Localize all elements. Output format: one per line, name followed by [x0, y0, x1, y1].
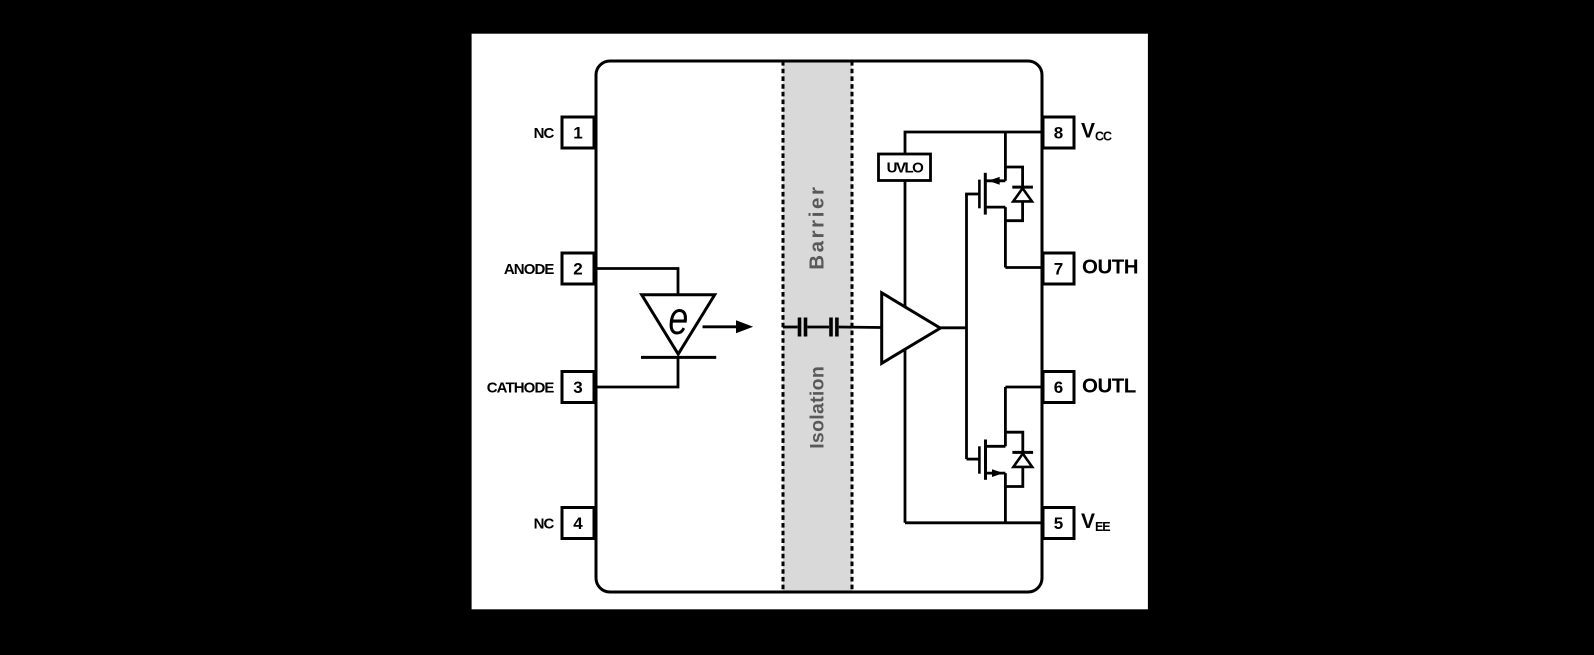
Q1 source vertical to OUTH: [1004, 207, 1007, 267]
svg-text:Barrier: Barrier: [806, 184, 829, 269]
capacitor C1 plate A: [798, 318, 802, 337]
capacitor C1 plate B: [804, 318, 808, 337]
svg-text:5: 5: [1054, 514, 1063, 533]
barrier left dashed line: [782, 61, 785, 592]
OUTL wire: [1005, 386, 1043, 389]
Q2 body diode bottom link: [1005, 467, 1022, 487]
wire C2 to buffer input: [839, 326, 882, 329]
pin 5 box: [1043, 508, 1074, 539]
svg-text:ANODE: ANODE: [504, 261, 555, 278]
white page area: [472, 34, 1148, 610]
LED emitter triangle D1: [642, 295, 715, 354]
svg-text:e: e: [668, 291, 688, 344]
Q2 drain wire: [986, 445, 1006, 448]
svg-text:Isolation: Isolation: [807, 366, 829, 449]
Q1 body diode cathode bar: [1012, 186, 1033, 189]
light emission arrow: [703, 325, 741, 328]
Q2 source vertical to VEE: [1004, 473, 1007, 523]
pin 1 box: [562, 117, 594, 148]
svg-text:4: 4: [573, 514, 583, 533]
svg-text:OUTH: OUTH: [1082, 256, 1138, 279]
svg-text:8: 8: [1054, 124, 1063, 143]
capacitor C2 plate A: [829, 318, 833, 337]
Q2 gate wire: [967, 458, 980, 461]
svg-text:7: 7: [1054, 260, 1063, 279]
barrier right dashed line: [851, 61, 854, 592]
Q1 arrow: [988, 177, 1000, 185]
pin 6 box: [1043, 372, 1074, 403]
wire buffer bottom to VEE rail: [904, 350, 907, 523]
Q2 arrow: [992, 469, 1004, 477]
Q1 source wire: [985, 206, 1005, 209]
UVLO box: [879, 154, 931, 181]
wire between C1 and C2: [807, 326, 829, 329]
pin 2 box: [562, 253, 594, 284]
Q2 body diode top link: [1005, 432, 1022, 452]
buffer amplifier U1: [882, 293, 941, 364]
VCC rail: [905, 132, 1043, 154]
wire UVLO to buffer top: [904, 181, 907, 307]
pin 7 box: [1043, 253, 1074, 284]
pin 4 box: [562, 508, 594, 539]
svg-text:2: 2: [573, 260, 582, 279]
Q2 gate bar: [978, 446, 981, 473]
pin 8 box: [1043, 117, 1074, 148]
svg-text:OUTL: OUTL: [1082, 375, 1136, 398]
svg-text:NC: NC: [534, 125, 555, 142]
svg-text:NC: NC: [534, 516, 555, 533]
Q1 channel bar: [984, 173, 987, 215]
svg-text:1: 1: [573, 124, 582, 143]
Q2 source wire with arrow: [987, 472, 1006, 475]
Q2 channel bar: [984, 440, 987, 480]
Q2 body diode cathode bar: [1012, 451, 1033, 454]
svg-text:3: 3: [573, 378, 582, 397]
VEE rail: [905, 521, 1043, 524]
Q1 body diode bottom link: [1005, 201, 1022, 220]
LED cathode bar: [641, 356, 716, 359]
Q1 body diode triangle: [1013, 188, 1032, 201]
isolation barrier shaded band: [783, 61, 852, 592]
svg-text:UVLO: UVLO: [887, 160, 925, 177]
Q1 body diode top link: [1005, 167, 1022, 187]
Q1 drain vertical from VCC: [1004, 132, 1007, 181]
svg-text:CATHODE: CATHODE: [487, 380, 555, 397]
wire anode: pin2 to LED: [595, 269, 678, 297]
OUTH wire: [1005, 266, 1043, 269]
barrier coupling wire left: [783, 326, 798, 329]
Q2 body diode triangle: [1013, 454, 1032, 467]
gate drive rail: [965, 194, 968, 459]
buffer output wire: [940, 326, 966, 329]
transistor Q1 (high side) gate wire: [965, 193, 979, 196]
transistor Q2 (low side) drain vertical from OUTL: [1004, 387, 1007, 446]
wire cathode: LED to pin3: [595, 357, 678, 387]
pin 3 box: [562, 372, 594, 403]
IC body outline: [596, 61, 1042, 592]
svg-text:6: 6: [1054, 378, 1063, 397]
capacitor C2 plate B: [835, 318, 839, 337]
Q1 drain wire with arrow: [987, 179, 1006, 182]
Q1 gate bar: [978, 180, 981, 209]
